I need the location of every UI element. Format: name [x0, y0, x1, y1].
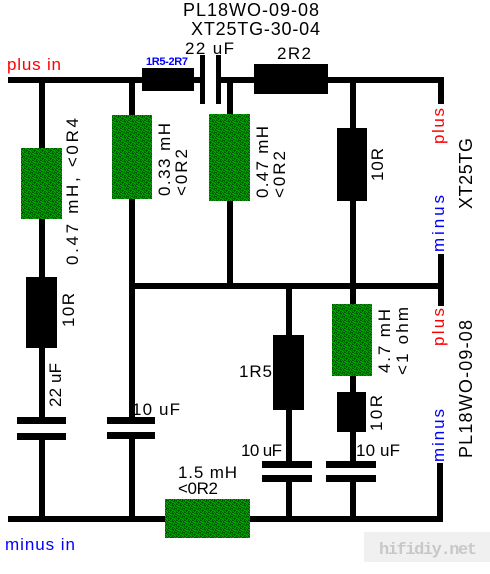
svg-text:10 uF: 10 uF: [356, 441, 400, 460]
inductor L1 0.47 mH: [21, 148, 62, 219]
svg-text:plus: plus: [429, 108, 448, 144]
value label 4.7 mH vertical: [375, 307, 412, 375]
wire woofer minus stub: [437, 463, 443, 522]
svg-text:<0R2: <0R2: [178, 479, 218, 498]
svg-text:XT25TG: XT25TG: [456, 138, 476, 209]
svg-text:4.7 mH: 4.7 mH: [375, 309, 394, 373]
capacitor C3 10 uF plates: [107, 417, 155, 439]
svg-text:<1 ohm: <1 ohm: [393, 307, 412, 375]
svg-text:XT25TG-30-04: XT25TG-30-04: [191, 19, 320, 39]
svg-text:10R: 10R: [368, 148, 387, 181]
svg-text:PL18WO-09-08: PL18WO-09-08: [183, 0, 319, 20]
resistor R2 2R2: [254, 64, 328, 94]
resistor R5 1R5: [273, 335, 304, 410]
capacitor C2 22 uF plates: [17, 417, 66, 440]
wire branch2 vertical upper: [129, 83, 135, 420]
svg-text:22 uF: 22 uF: [185, 39, 234, 58]
svg-text:0.47 mH: 0.47 mH: [253, 126, 272, 198]
inductor L5 1.5 mH: [165, 499, 250, 538]
svg-text:<0R2: <0R2: [270, 151, 289, 198]
capacitor C1 22 uF plates: [200, 55, 221, 104]
resistor R3 10R branch1: [26, 277, 57, 348]
svg-text:hifidiy.net: hifidiy.net: [379, 541, 477, 560]
capacitor C4 10 uF plates: [262, 461, 312, 482]
wire branch3 vertical: [227, 83, 233, 283]
wire branch1 vertical upper: [39, 83, 45, 420]
wire 1R5 branch vertical upper: [286, 289, 292, 463]
wire 1R5 branch vertical lower: [286, 478, 292, 522]
svg-text:10R: 10R: [367, 395, 386, 431]
svg-text:0.47 mH, <0R4: 0.47 mH, <0R4: [63, 118, 82, 265]
wire tweeter minus stub: [438, 254, 444, 306]
svg-text:plus: plus: [429, 308, 448, 346]
svg-text:minus: minus: [429, 195, 448, 252]
watermark box hifidiy.net: [364, 532, 490, 562]
svg-text:10 uF: 10 uF: [132, 400, 180, 419]
svg-text:<0R2: <0R2: [172, 149, 191, 196]
svg-text:minus in: minus in: [5, 535, 75, 554]
wire tweeter attenuator vertical: [350, 83, 356, 283]
wire tweeter plus stub: [438, 77, 444, 104]
svg-text:plus in: plus in: [7, 55, 61, 74]
wire bottom rail: [8, 516, 443, 522]
wire middle rail: [130, 283, 444, 289]
wire woofer branch vertical lower: [350, 478, 356, 522]
svg-text:1R5-2R7: 1R5-2R7: [146, 56, 188, 68]
wire branch2 vertical lower: [129, 435, 135, 522]
wire woofer branch vertical upper: [350, 289, 356, 463]
value label 0.47 mH vertical: [253, 126, 289, 198]
wire branch1 vertical lower: [39, 437, 45, 522]
wire top rail right segment: [218, 77, 444, 83]
inductor L4 4.7 mH: [332, 304, 372, 376]
svg-text:PL18WO-09-08: PL18WO-09-08: [456, 320, 476, 458]
svg-text:10 uF: 10 uF: [241, 441, 282, 460]
inductor L3 0.47 mH: [209, 114, 250, 201]
svg-text:22 uF: 22 uF: [46, 363, 65, 407]
resistor R4 10R tweeter: [337, 128, 367, 201]
wire top rail left segment: [8, 77, 203, 83]
inductor L2 0.33 mH: [112, 115, 152, 199]
resistor R6 10R woofer: [337, 392, 366, 432]
svg-text:2R2: 2R2: [277, 44, 311, 63]
resistor R1 1R5-2R7: [142, 68, 194, 91]
svg-text:1R5: 1R5: [239, 362, 272, 381]
capacitor C5 10 uF plates: [326, 461, 376, 482]
value label 0.33 mH vertical: [155, 123, 191, 196]
svg-text:minus: minus: [429, 409, 448, 462]
svg-text:10R: 10R: [59, 293, 78, 327]
